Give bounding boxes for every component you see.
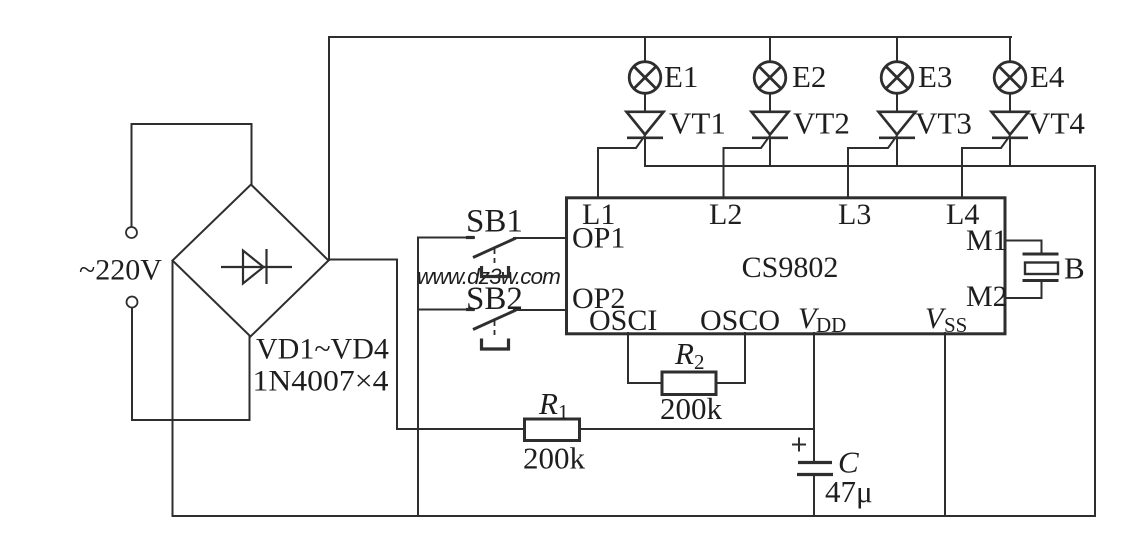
svg-text:47μ: 47μ <box>825 474 873 509</box>
svg-text:VT2: VT2 <box>793 106 850 141</box>
thyristor VT3 <box>879 112 916 138</box>
svg-text:VD1~VD4: VD1~VD4 <box>256 333 389 366</box>
lamp E2 <box>754 62 786 94</box>
wire OSCI pin to R2 left <box>628 333 662 383</box>
wire capacitor bottom to rail <box>813 476 815 516</box>
thyristor VT4 <box>992 112 1029 138</box>
wire E2 to VT2 <box>769 93 771 112</box>
wire E4 to VT4 <box>1009 93 1011 112</box>
svg-text:L2: L2 <box>709 198 742 231</box>
switch SB1 dashed actuator link <box>494 249 496 266</box>
svg-text:L3: L3 <box>838 198 871 231</box>
wire AC top loop: terminal to bridge top corner <box>132 124 252 227</box>
lamp E4 <box>994 62 1026 94</box>
wire E1 to VT1 <box>644 93 646 112</box>
resistor R1 box <box>525 419 580 441</box>
switch SB1 blade <box>473 238 516 258</box>
wire SB1 right to OP1 <box>514 237 566 239</box>
thyristor VT1 <box>627 112 664 138</box>
wire M1 to buzzer <box>1005 241 1042 253</box>
svg-text:SB1: SB1 <box>466 204 523 240</box>
svg-text:SB2: SB2 <box>466 281 523 317</box>
svg-text:OSCO: OSCO <box>700 304 780 337</box>
svg-text:200k: 200k <box>660 391 723 426</box>
wire SB2 right to OP2 <box>514 309 566 311</box>
switch SB2 push button bracket <box>482 339 509 350</box>
wire SB common vertical to rail <box>417 238 419 517</box>
capacitor C plates <box>797 463 833 475</box>
svg-text:SS: SS <box>944 313 967 337</box>
wire VSS pin down to rail <box>944 333 946 516</box>
wire bridge right corner to R1 feed <box>329 260 524 430</box>
svg-text:E1: E1 <box>664 59 698 94</box>
wire VT2 gate to pin L2 <box>724 136 770 198</box>
wire VDD pin down to capacitor <box>813 333 815 461</box>
resistor R2 box <box>662 372 716 395</box>
svg-text:2: 2 <box>694 350 705 374</box>
capacitor C polarity plus <box>792 438 806 452</box>
svg-text:OSCI: OSCI <box>589 304 657 337</box>
lamp E3 <box>881 62 913 94</box>
wire AC bottom loop: terminal to bridge bottom corner <box>132 308 250 420</box>
wire right side down to bottom rail <box>1094 166 1096 516</box>
svg-text:E2: E2 <box>792 59 826 94</box>
wire VT4 cathode down <box>1009 138 1011 166</box>
svg-text:1: 1 <box>558 400 569 424</box>
svg-text:OP1: OP1 <box>572 222 625 255</box>
diode symbol inside bridge <box>221 249 292 284</box>
svg-text:CS9802: CS9802 <box>742 251 839 284</box>
wire E3 to VT3 <box>896 93 898 112</box>
terminal lower AC input <box>127 297 138 308</box>
wire cathode rail <box>645 165 1095 167</box>
svg-text:M2: M2 <box>966 280 1008 313</box>
svg-text:1N4007×4: 1N4007×4 <box>253 365 389 398</box>
wire OSCO pin to R2 right <box>716 333 745 383</box>
wire M2 to buzzer <box>1005 283 1042 298</box>
bridge rectifier VD1~VD4 diamond <box>173 185 329 337</box>
wire VT1 gate to pin L1 <box>598 136 645 198</box>
wire R1 to VDD node <box>580 428 814 430</box>
svg-text:200k: 200k <box>523 441 586 476</box>
wire E1 drop <box>644 37 646 62</box>
switch SB1 push button bracket <box>482 266 509 277</box>
wire top rail from bridge + output to lamps <box>329 37 1011 260</box>
svg-text:E3: E3 <box>918 59 952 94</box>
svg-text:~220V: ~220V <box>79 254 162 287</box>
thyristor VT2 <box>752 112 789 138</box>
switch SB1 fixed contact tick <box>466 236 475 239</box>
buzzer B element <box>1023 254 1059 281</box>
svg-text:M1: M1 <box>966 224 1008 257</box>
wire SB1 left <box>418 237 474 239</box>
switch SB2 dashed actuator link <box>494 321 496 339</box>
lamp E1 <box>629 62 661 94</box>
svg-text:DD: DD <box>816 313 846 337</box>
wire SB2 left <box>418 309 474 311</box>
svg-text:B: B <box>1064 251 1085 286</box>
wire VT3 gate to pin L3 <box>848 136 897 198</box>
svg-text:VT3: VT3 <box>915 106 972 141</box>
wire VT2 cathode down <box>769 138 771 166</box>
wire bottom rail <box>173 515 1096 517</box>
svg-text:R: R <box>538 386 558 421</box>
wire E3 drop <box>896 37 898 62</box>
switch SB2 blade <box>473 310 516 330</box>
wire E4 drop <box>1009 37 1011 60</box>
wire VT4 gate to pin L4 <box>962 136 1010 198</box>
IC U1 CS9802 box <box>567 198 1006 334</box>
terminal upper AC input <box>126 227 137 238</box>
svg-text:VT4: VT4 <box>1028 106 1085 141</box>
switch SB2 fixed contact tick <box>466 308 475 311</box>
svg-text:VT1: VT1 <box>669 106 726 141</box>
wire VT3 cathode down <box>896 138 898 166</box>
svg-text:E4: E4 <box>1030 59 1065 94</box>
wire VT1 cathode down <box>644 138 646 166</box>
wire bridge left corner down to bottom rail <box>172 261 174 516</box>
svg-text:R: R <box>674 336 694 371</box>
wire E2 drop <box>769 37 771 62</box>
